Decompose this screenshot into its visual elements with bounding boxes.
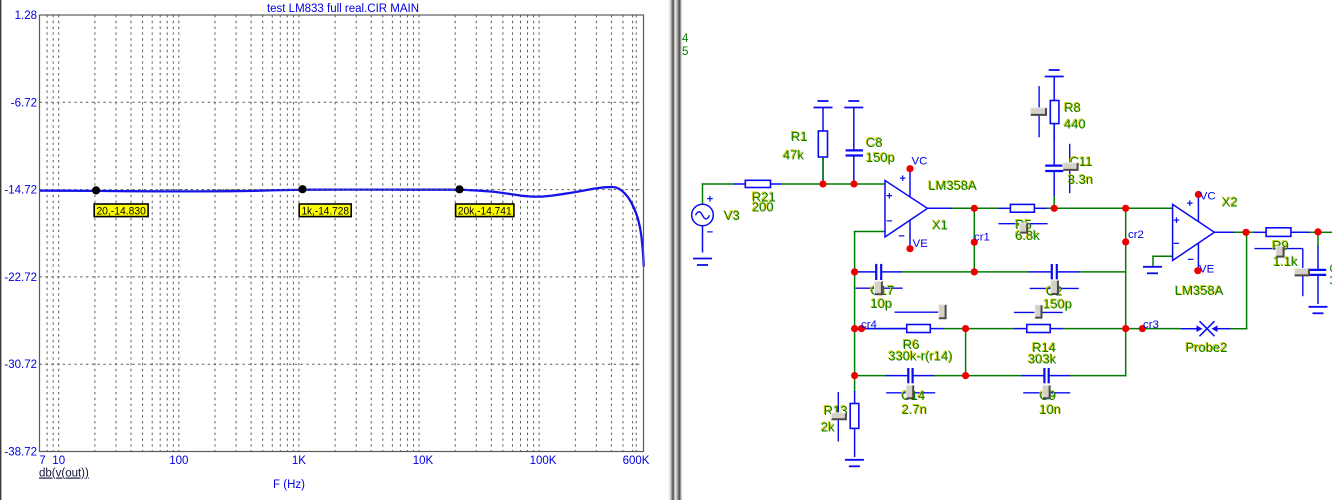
svg-text:1k,-14.728: 1k,-14.728 (301, 205, 349, 217)
svg-text:X1: X1 (932, 218, 948, 233)
svg-text:47k: 47k (783, 148, 804, 163)
svg-text:20k,-14.741: 20k,-14.741 (458, 205, 512, 217)
svg-text:+: + (899, 173, 905, 185)
svg-text:1K: 1K (292, 455, 306, 467)
svg-text:VE: VE (913, 238, 929, 250)
svg-text:VC: VC (1200, 191, 1216, 203)
svg-text:-38.72: -38.72 (4, 447, 37, 459)
svg-text:10n: 10n (1039, 402, 1061, 417)
svg-text:R1: R1 (791, 129, 808, 144)
svg-text:2.7n: 2.7n (902, 402, 927, 417)
svg-text:1.28: 1.28 (15, 10, 37, 22)
svg-text:10p: 10p (871, 296, 893, 311)
svg-text:7: 7 (39, 455, 45, 467)
svg-text:10: 10 (52, 455, 65, 467)
svg-text:−: − (707, 227, 713, 239)
svg-text:−: − (898, 230, 904, 242)
svg-text:cr2: cr2 (1128, 229, 1144, 241)
svg-text:+: + (1187, 198, 1193, 210)
svg-text:20,-14.830: 20,-14.830 (96, 205, 145, 217)
svg-text:test LM833 full real.CIR MAIN: test LM833 full real.CIR MAIN (267, 3, 419, 15)
svg-text:4: 4 (682, 33, 689, 45)
svg-text:VC: VC (912, 156, 928, 168)
svg-text:100: 100 (169, 455, 188, 467)
svg-text:V3: V3 (724, 208, 740, 223)
svg-text:db(v(out)): db(v(out)) (39, 468, 89, 480)
svg-text:5: 5 (682, 46, 688, 58)
svg-text:150p: 150p (866, 150, 895, 165)
svg-text:330k-r(r14): 330k-r(r14) (888, 349, 952, 364)
svg-text:X2: X2 (1222, 195, 1238, 210)
svg-text:cr1: cr1 (974, 232, 990, 244)
svg-text:-6.72: -6.72 (11, 97, 37, 109)
svg-text:2k: 2k (821, 420, 835, 435)
svg-text:VE: VE (1199, 264, 1215, 276)
svg-text:−: − (886, 216, 892, 228)
svg-text:LM358A: LM358A (1175, 283, 1224, 298)
svg-text:-30.72: -30.72 (4, 359, 37, 371)
svg-text:F (Hz): F (Hz) (273, 479, 305, 491)
svg-text:Probe2: Probe2 (1186, 340, 1228, 355)
svg-text:R8: R8 (1064, 100, 1081, 115)
svg-text:440: 440 (1064, 117, 1086, 132)
svg-text:+: + (1173, 215, 1179, 227)
svg-text:10K: 10K (413, 455, 434, 467)
svg-text:cr3: cr3 (1143, 319, 1159, 331)
svg-text:−: − (1187, 254, 1193, 266)
svg-text:303k: 303k (1028, 352, 1057, 367)
svg-text:−: − (1173, 238, 1179, 250)
svg-text:200: 200 (752, 200, 774, 215)
svg-text:100K: 100K (530, 455, 557, 467)
svg-text:C8: C8 (866, 135, 883, 150)
svg-text:600K: 600K (623, 455, 650, 467)
svg-text:-14.72: -14.72 (4, 185, 37, 197)
svg-text:+: + (707, 194, 713, 206)
svg-text:150p: 150p (1043, 297, 1072, 312)
svg-text:3.3n: 3.3n (1068, 172, 1093, 187)
svg-text:LM358A: LM358A (928, 178, 977, 193)
svg-text:cr4: cr4 (861, 319, 877, 331)
svg-text:-22.72: -22.72 (4, 272, 37, 284)
svg-text:+: + (886, 191, 892, 203)
